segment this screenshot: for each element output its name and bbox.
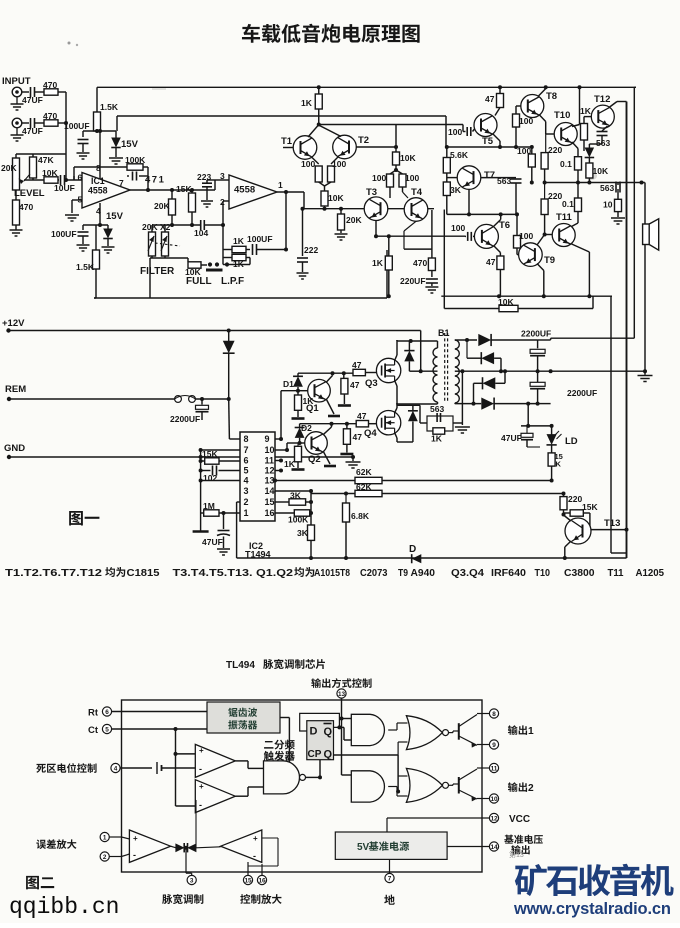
wire rail third: [319, 124, 463, 126]
ground pin5: [65, 214, 79, 216]
svg-text:K: K: [556, 460, 562, 469]
resistor 0.1 upper: [572, 142, 578, 149]
wire pin14 line: [275, 490, 311, 492]
wire osc out: [280, 717, 289, 719]
wire T7 emitter: [468, 189, 470, 214]
svg-text:TL494: TL494: [226, 660, 255, 671]
diode rectifier Da: [478, 334, 491, 346]
wire bottom loop: [94, 297, 387, 299]
svg-text:2200UF: 2200UF: [567, 388, 597, 398]
comparator DT: [195, 780, 235, 813]
svg-text:10K: 10K: [498, 297, 514, 307]
resistor 220 lower: [544, 183, 546, 200]
svg-text:LEVEL: LEVEL: [14, 188, 45, 199]
wire center tap: [421, 370, 438, 372]
resistor 6.8K: [345, 494, 347, 504]
wire LD to 62K: [551, 466, 553, 480]
svg-text:FILTER: FILTER: [140, 266, 175, 277]
zener 15V upper: [115, 131, 117, 138]
resistor 20K mid: [171, 190, 173, 199]
svg-text:100: 100: [519, 231, 533, 241]
transformer secondary winding: [455, 340, 460, 403]
pin 4: [111, 763, 120, 772]
svg-text:Q: Q: [324, 726, 333, 738]
wire to comp1: [176, 753, 196, 755]
wire and2 to nor2: [388, 786, 397, 788]
wire Q3 gate rail: [298, 372, 353, 374]
capacitor 47UF ch1: [30, 87, 32, 97]
wire 220 to node: [563, 510, 565, 515]
wire 100 to T3: [389, 187, 391, 198]
svg-text:9: 9: [492, 742, 496, 749]
resistor 20K tail2: [340, 209, 342, 214]
svg-text:220: 220: [568, 494, 582, 504]
wire T12 base 1K: [584, 116, 592, 118]
svg-text:4: 4: [114, 765, 118, 772]
resistor 100 T3: [390, 170, 396, 174]
wire pot wiper dashed: [155, 243, 180, 246]
pin 9: [489, 740, 498, 749]
svg-text:47UF: 47UF: [501, 433, 522, 443]
capacitor 471 feedback: [127, 175, 129, 177]
svg-text:104: 104: [194, 228, 208, 238]
diode primary clamp: [404, 351, 414, 362]
wire T2 base: [356, 146, 396, 148]
wire pin2: [223, 200, 229, 202]
title 车载低音炮电原理图: [242, 24, 260, 43]
transistor T6: [474, 224, 498, 248]
wire Q2 base: [300, 442, 305, 444]
ground 100UF upper: [82, 144, 84, 153]
wire emitter rail T3T4: [303, 208, 435, 210]
wire pin11 stub: [275, 460, 281, 462]
wire T1 base: [283, 147, 293, 149]
nand comparators: [264, 761, 300, 794]
wire left bus: [200, 450, 202, 531]
svg-text:GND: GND: [4, 443, 25, 454]
resistor 100 T4: [396, 170, 403, 174]
svg-text:2: 2: [103, 854, 107, 861]
resistor 47 T5: [498, 85, 502, 89]
resistor 47 T6: [497, 256, 504, 270]
svg-text:10K: 10K: [42, 168, 58, 178]
wire secondary top: [455, 339, 477, 341]
svg-text:T6: T6: [499, 220, 510, 231]
resistor 10K fb T2: [395, 125, 397, 153]
svg-text:563: 563: [430, 404, 444, 414]
op-amp IC1 4558 second half: [229, 175, 277, 209]
wire level rail: [16, 153, 66, 155]
wire T10 collector: [579, 87, 581, 124]
svg-text:-: -: [199, 764, 202, 774]
fuse REM: [175, 396, 182, 403]
wire Dd to LD: [527, 404, 529, 426]
wire pin4 supply: [99, 203, 101, 225]
svg-text:6: 6: [78, 173, 83, 183]
speck marks top left: [68, 42, 71, 45]
ground 47 Q4: [346, 444, 348, 452]
resistor 1K Q1: [297, 391, 299, 395]
resistor 470 ch2: [44, 120, 58, 126]
resistor 1K T12: [581, 124, 588, 141]
wire mid dc rail: [462, 370, 645, 372]
pin 2: [100, 852, 109, 861]
svg-text:T3: T3: [366, 187, 377, 198]
wire T8 collector: [538, 89, 546, 97]
svg-text:11: 11: [491, 765, 498, 772]
wire feedback right: [143, 166, 148, 168]
wire 1.5K to bottom loop: [95, 269, 97, 298]
wire Ct down: [175, 729, 177, 806]
resistor 470 driver: [428, 258, 435, 271]
resistor 470 below pot: [13, 200, 20, 225]
resistor 47 Q4 pulldown: [346, 424, 348, 429]
diode rectifier Dc: [474, 382, 483, 384]
svg-text:-: -: [133, 850, 136, 860]
potentiometer 20K LEVEL: [13, 158, 20, 190]
wire Q3 source: [395, 381, 397, 387]
wire nor2 out: [449, 784, 454, 786]
wire fb up: [195, 800, 197, 848]
label pwm adj: [162, 894, 172, 904]
svg-text:T7: T7: [484, 170, 495, 181]
resistor 15K LD: [551, 445, 553, 453]
svg-text:+: +: [133, 834, 138, 843]
svg-text:T2: T2: [358, 135, 369, 146]
svg-text:10UF: 10UF: [54, 183, 75, 193]
wire Ct: [112, 728, 207, 730]
op-amp IC1 4558 first half: [82, 173, 130, 209]
wire Dc left: [473, 383, 475, 403]
pin 6: [102, 707, 111, 716]
wire bottom rail: [237, 557, 627, 559]
resistor 10K tail: [321, 191, 328, 206]
svg-text:C2073: C2073: [360, 568, 388, 579]
wire Q2 collector: [323, 427, 332, 435]
svg-text:10K: 10K: [400, 153, 416, 163]
svg-text:102: 102: [203, 473, 217, 483]
wire pin2: [109, 856, 121, 858]
transformer primary winding: [433, 348, 438, 402]
resistor 100K feedback: [127, 164, 143, 170]
wire speaker vertical: [644, 183, 646, 372]
mosfet Q4: [376, 411, 400, 435]
wire T9 emitter: [537, 264, 544, 271]
svg-text:Q4: Q4: [364, 428, 377, 439]
wire qp to nor1: [398, 741, 407, 743]
svg-text:Q1.Q2: Q1.Q2: [256, 568, 293, 579]
wire fb to out: [257, 249, 287, 251]
wire C1 to R1: [35, 91, 45, 93]
svg-text:14: 14: [490, 844, 498, 851]
wire T4 collector: [404, 221, 416, 231]
svg-text:100: 100: [451, 223, 465, 233]
svg-text:47K: 47K: [38, 155, 54, 165]
wire T9 collector: [537, 235, 545, 246]
wire T4 to 470: [404, 248, 432, 250]
svg-text:470: 470: [413, 258, 427, 268]
svg-text:2200UF: 2200UF: [521, 329, 551, 339]
svg-text:3: 3: [190, 877, 194, 884]
svg-text:+12V: +12V: [2, 318, 25, 329]
svg-text:8: 8: [243, 434, 248, 444]
svg-text:100UF: 100UF: [247, 234, 273, 244]
svg-text:470: 470: [43, 80, 57, 90]
svg-text:7: 7: [119, 178, 124, 188]
wire pin14: [447, 846, 489, 848]
resistor 220 T13: [560, 497, 567, 510]
svg-text:100: 100: [405, 173, 419, 183]
svg-text:T1.T2.T6.T7.T12: T1.T2.T6.T7.T12: [5, 568, 102, 579]
wire comp1 out: [235, 760, 248, 762]
svg-text:20K: 20K: [346, 215, 362, 225]
wire Q4 source: [395, 433, 397, 438]
resistor 1K Q2: [297, 443, 299, 446]
diode steering b: [187, 843, 196, 852]
svg-text:220UF: 220UF: [400, 276, 426, 286]
error amp triangle: [129, 830, 170, 862]
wire to CP: [319, 753, 321, 777]
wire T5T7 rail: [447, 146, 532, 148]
wire Rt: [112, 711, 207, 713]
pin 16: [257, 875, 266, 884]
wire T5 emitter: [493, 134, 501, 142]
svg-text:563: 563: [497, 176, 511, 186]
svg-text:T11: T11: [608, 568, 624, 579]
resistor 3K vertical: [308, 525, 315, 540]
nor gate 1: [406, 716, 442, 750]
svg-text:62K: 62K: [356, 482, 372, 492]
svg-text:6.8K: 6.8K: [351, 511, 370, 521]
svg-text:8: 8: [492, 711, 496, 718]
resistor 220 upper: [545, 134, 547, 153]
svg-text:5V: 5V: [357, 842, 370, 853]
wire pin2 loop: [237, 501, 240, 503]
svg-text:T8: T8: [340, 568, 350, 579]
wire rail second: [117, 115, 446, 117]
svg-text:T1: T1: [281, 136, 293, 147]
wire nand out: [306, 776, 321, 778]
svg-text:100K: 100K: [125, 155, 146, 165]
fig2 box: [122, 700, 483, 872]
wire 47 to T5: [495, 108, 500, 116]
wire 1K to bottom: [388, 270, 390, 296]
svg-text:T8: T8: [546, 91, 557, 102]
svg-text:13: 13: [338, 691, 346, 698]
wire T13 base line: [590, 529, 627, 531]
pin 12 VCC: [489, 813, 498, 822]
svg-text:1: 1: [278, 180, 283, 190]
svg-text:VCC: VCC: [509, 814, 530, 825]
svg-text:10: 10: [603, 200, 613, 210]
diode reverse protect: [228, 331, 230, 342]
potentiometer 20K b: [162, 232, 169, 256]
resistor 1M pin1: [201, 512, 204, 514]
svg-text:15K: 15K: [202, 449, 218, 459]
resistor 100 mid: [531, 147, 533, 154]
transistor T4: [404, 198, 428, 222]
wire R2 to mix node: [58, 122, 66, 124]
wire T13 emitter: [565, 541, 571, 547]
svg-text:10K: 10K: [328, 193, 344, 203]
transistor T7: [457, 166, 481, 190]
resistor 47 Q3 gate: [353, 369, 365, 375]
wire T6 collector: [493, 220, 501, 228]
wire right rail 611: [610, 296, 612, 553]
wire dot to nor2: [398, 775, 407, 777]
svg-text:100: 100: [332, 159, 346, 169]
svg-text:Ct: Ct: [88, 725, 99, 736]
svg-text:第13: 第13: [509, 850, 524, 859]
label output mode ctl: [311, 678, 321, 688]
resistor 470 ch1: [44, 89, 58, 95]
resistor 1.5K upper: [96, 87, 98, 112]
svg-text:4558: 4558: [234, 185, 255, 196]
wire pin5 ground: [72, 199, 82, 201]
svg-text:20K: 20K: [1, 163, 17, 173]
resistor 47 Q3 pulldown: [343, 373, 345, 378]
resistor 100 T1 emitter: [312, 157, 319, 164]
svg-text:47: 47: [357, 411, 367, 421]
capacitor 2200UF pos: [530, 349, 545, 353]
5V reference box: [335, 832, 447, 859]
capacitor 102 pin5: [201, 470, 211, 472]
ground 10: [617, 212, 619, 217]
resistor 3K pin15: [275, 501, 289, 503]
wire 100 to T4: [402, 187, 404, 192]
pin 14: [489, 842, 498, 851]
svg-text:6: 6: [105, 709, 109, 716]
svg-text:20K X2: 20K X2: [142, 222, 171, 232]
pin 10: [489, 794, 498, 803]
wire C2 to R2: [35, 122, 45, 124]
svg-text:1K: 1K: [233, 236, 245, 246]
output transistor 2: [458, 777, 460, 794]
wire Q to and2: [334, 754, 399, 756]
svg-text:5: 5: [243, 466, 248, 476]
ground zener lower: [102, 246, 115, 248]
resistor 100 T2 emitter: [331, 157, 338, 164]
svg-text:100UF: 100UF: [64, 121, 90, 131]
ground secondary: [461, 371, 463, 425]
wire op2 out: [277, 191, 304, 193]
svg-text:7: 7: [388, 875, 392, 882]
svg-text:12: 12: [265, 466, 275, 476]
svg-text:1M: 1M: [203, 501, 215, 511]
wire 10K to splitter: [395, 165, 397, 170]
svg-text:+: +: [253, 834, 258, 843]
wire Q4 gate rail: [300, 423, 357, 425]
capacitor 222: [302, 209, 304, 256]
svg-text:-: -: [199, 800, 202, 810]
resistor 1K snubber: [433, 428, 445, 434]
ground 100UF lower: [82, 236, 84, 244]
svg-text:-: -: [253, 851, 256, 861]
resistor 1K fb upper: [232, 246, 246, 252]
resistor 15K T13: [564, 512, 571, 514]
svg-text:3K: 3K: [297, 528, 309, 538]
wire right vertical 634: [633, 87, 635, 338]
pin 11: [489, 763, 498, 772]
svg-text:T4: T4: [411, 187, 423, 198]
resistor 10K level: [44, 177, 58, 183]
wire pwm adj: [185, 848, 187, 873]
speaker LS: [643, 224, 650, 245]
svg-text:T5: T5: [482, 136, 494, 147]
transistor T8: [521, 95, 544, 118]
wire pin10 to Q2: [275, 449, 287, 451]
wire mid rail out: [543, 182, 645, 184]
svg-text:3: 3: [220, 171, 225, 181]
LED LD: [551, 426, 553, 435]
svg-text:10: 10: [490, 796, 498, 803]
wire T7 base: [446, 173, 448, 182]
svg-text:10: 10: [265, 445, 275, 455]
wire rail2 corner: [445, 116, 447, 147]
svg-text:D: D: [409, 544, 416, 555]
svg-text:16: 16: [258, 877, 266, 884]
transistor T5: [474, 114, 497, 137]
diode T12 bias: [588, 144, 590, 148]
svg-text:563: 563: [600, 183, 614, 193]
svg-text:1K: 1K: [580, 106, 592, 116]
mosfet Q3: [376, 358, 400, 382]
wire pin9 to Q1: [275, 438, 281, 440]
svg-text:3K: 3K: [290, 491, 302, 501]
wire pin4: [201, 480, 240, 482]
svg-text:47: 47: [350, 380, 360, 390]
label fig1: [69, 511, 83, 525]
capacitor 220UF driver: [431, 271, 433, 278]
resistor 1K fb lower: [232, 254, 246, 260]
transistor T1: [293, 136, 317, 160]
comparator PWM: [195, 744, 235, 777]
resistor 15K: [191, 190, 193, 193]
and gate 1: [351, 714, 384, 745]
oscillator box: [207, 702, 280, 733]
capacitor 47UF ch2: [30, 118, 32, 128]
wire T11 base: [544, 215, 546, 235]
svg-text:A1015: A1015: [314, 568, 340, 579]
ground 223: [206, 187, 208, 200]
wire T13 collector: [564, 515, 572, 521]
svg-text:5.6K: 5.6K: [450, 150, 469, 160]
svg-text:15V: 15V: [121, 139, 139, 150]
resistor 10K bottom: [499, 305, 518, 311]
svg-text:IRF640: IRF640: [491, 568, 526, 579]
svg-text:100: 100: [301, 159, 315, 169]
capacitor 104: [200, 220, 202, 230]
ground 222: [302, 262, 304, 272]
svg-text:1.5K: 1.5K: [76, 262, 95, 272]
svg-text:+: +: [199, 782, 204, 791]
wire T8 emitter: [539, 115, 546, 122]
wire bottom amp rail: [441, 295, 612, 297]
svg-text:16: 16: [265, 508, 275, 518]
wire R1 to mix node: [58, 91, 66, 93]
resistor 5.6K: [446, 147, 448, 158]
wire T11 emitter: [571, 244, 590, 253]
label out1: [508, 725, 518, 735]
label dead zone: [36, 764, 46, 773]
svg-text:C3800: C3800: [564, 568, 595, 579]
wire filter drop: [149, 258, 151, 298]
wire T6 base rail: [376, 235, 465, 237]
svg-text:0.1: 0.1: [562, 199, 574, 209]
wire +12V rail: [6, 328, 10, 332]
ground pot: [15, 225, 17, 230]
wire pin13 line: [275, 480, 355, 482]
